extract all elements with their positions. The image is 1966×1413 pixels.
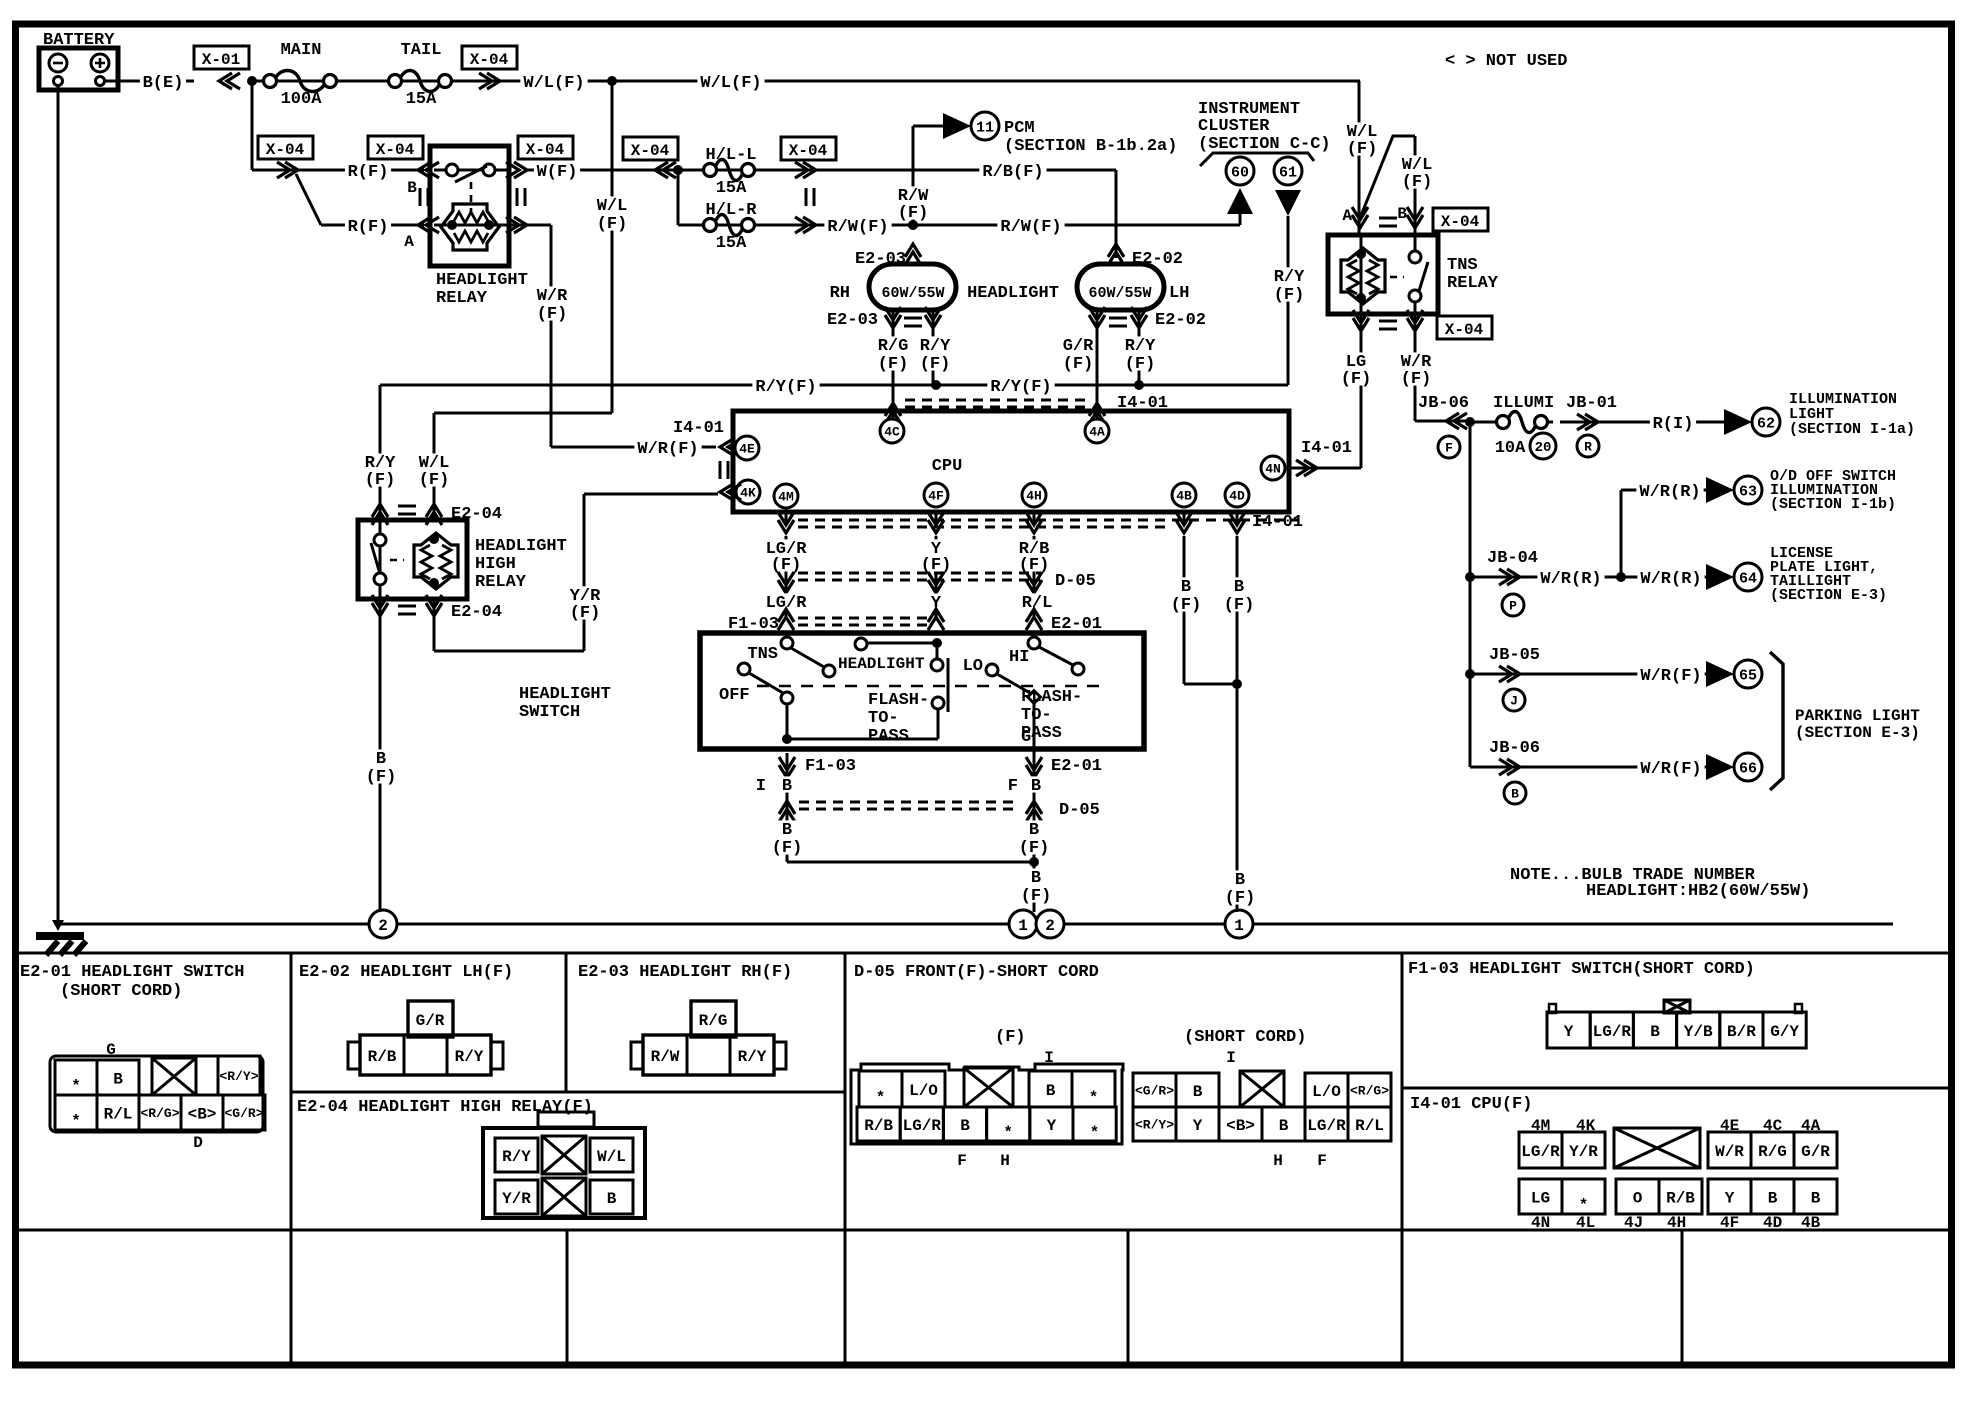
svg-text:B: B — [607, 1190, 617, 1208]
svg-text:W/R(F): W/R(F) — [637, 440, 698, 459]
svg-text:Y: Y — [1725, 1189, 1735, 1207]
svg-text:B: B — [1193, 1083, 1203, 1101]
svg-text:(F): (F) — [1225, 889, 1256, 908]
svg-text:D-05: D-05 — [1055, 572, 1096, 591]
svg-text:LG/R: LG/R — [1593, 1023, 1632, 1041]
svg-text:X-01: X-01 — [202, 51, 240, 69]
svg-text:X-04: X-04 — [789, 142, 828, 160]
svg-text:(F): (F) — [1274, 286, 1305, 305]
svg-text:4L: 4L — [1576, 1214, 1595, 1232]
svg-text:PASS: PASS — [868, 727, 909, 746]
svg-text:H: H — [1000, 1152, 1010, 1170]
svg-text:B: B — [1234, 578, 1244, 597]
svg-text:R/L: R/L — [1022, 594, 1053, 613]
svg-text:(F): (F) — [1171, 596, 1202, 615]
svg-text:B: B — [960, 1117, 970, 1135]
svg-text:<R/G>: <R/G> — [1350, 1084, 1389, 1099]
svg-text:B: B — [1768, 1189, 1778, 1207]
svg-text:W(F): W(F) — [537, 163, 578, 182]
svg-text:(SECTION C-C): (SECTION C-C) — [1198, 135, 1331, 154]
svg-text:E2-01 HEADLIGHT SWITCH: E2-01 HEADLIGHT SWITCH — [20, 963, 244, 982]
svg-text:I4-01: I4-01 — [1301, 439, 1352, 458]
svg-text:64: 64 — [1739, 570, 1757, 587]
svg-text:(SECTION I-1a): (SECTION I-1a) — [1789, 421, 1915, 438]
svg-text:(F): (F) — [1224, 596, 1255, 615]
svg-text:F1-03: F1-03 — [805, 757, 856, 776]
svg-text:A: A — [404, 233, 414, 251]
svg-text:HEADLIGHT: HEADLIGHT — [838, 655, 925, 673]
svg-text:<G/R>: <G/R> — [224, 1106, 263, 1121]
svg-text:B: B — [1046, 1082, 1056, 1100]
svg-text:B: B — [113, 1070, 123, 1088]
svg-text:E2-01: E2-01 — [1051, 757, 1102, 776]
svg-text:(F): (F) — [1125, 355, 1156, 374]
svg-text:<B>: <B> — [1226, 1117, 1255, 1135]
svg-text:65: 65 — [1739, 667, 1757, 684]
svg-text:Y/R: Y/R — [502, 1190, 531, 1208]
svg-text:I: I — [1044, 1049, 1054, 1067]
svg-text:HEADLIGHT:HB2(60W/55W): HEADLIGHT:HB2(60W/55W) — [1586, 882, 1810, 901]
svg-text:X-04: X-04 — [266, 141, 305, 159]
svg-text:(F): (F) — [878, 355, 909, 374]
svg-text:100A: 100A — [281, 90, 323, 109]
svg-text:JB-01: JB-01 — [1566, 394, 1617, 413]
svg-text:TO-: TO- — [1021, 706, 1052, 725]
svg-text:(SECTION E-3): (SECTION E-3) — [1795, 724, 1920, 742]
svg-text:L/O: L/O — [1312, 1083, 1341, 1101]
svg-text:D-05: D-05 — [1059, 801, 1100, 820]
svg-text:R/W: R/W — [651, 1048, 680, 1066]
svg-text:60W/55W: 60W/55W — [1088, 285, 1151, 302]
svg-text:H: H — [1273, 1152, 1283, 1170]
svg-text:W/R(R): W/R(R) — [1540, 570, 1601, 589]
svg-text:R/B(F): R/B(F) — [982, 163, 1043, 182]
svg-text:(F): (F) — [1341, 370, 1372, 389]
svg-text:20: 20 — [1535, 440, 1552, 456]
svg-text:B: B — [782, 821, 792, 840]
svg-text:(F): (F) — [419, 471, 450, 490]
svg-text:G/Y: G/Y — [1770, 1023, 1799, 1041]
svg-text:B: B — [1235, 871, 1245, 890]
svg-text:RH: RH — [830, 284, 850, 303]
svg-text:<R/Y>: <R/Y> — [219, 1069, 258, 1084]
svg-text:*: * — [71, 1078, 81, 1096]
svg-text:D: D — [193, 1134, 203, 1152]
svg-text:PCM: PCM — [1004, 119, 1035, 138]
svg-text:*: * — [71, 1113, 81, 1131]
svg-text:LG/R: LG/R — [1307, 1117, 1346, 1135]
svg-text:< > NOT USED: < > NOT USED — [1445, 52, 1567, 71]
svg-text:4H: 4H — [1667, 1214, 1686, 1232]
svg-text:60W/55W: 60W/55W — [881, 285, 944, 302]
svg-text:TNS: TNS — [1447, 256, 1478, 275]
svg-text:W/R(F): W/R(F) — [1640, 760, 1701, 779]
svg-text:RELAY: RELAY — [475, 573, 527, 592]
svg-text:(F): (F) — [570, 604, 601, 623]
svg-text:W/R: W/R — [1715, 1143, 1744, 1161]
svg-text:G/R: G/R — [1063, 337, 1094, 356]
svg-text:10A: 10A — [1495, 439, 1526, 458]
svg-text:HEADLIGHT: HEADLIGHT — [967, 284, 1059, 303]
svg-text:E2-04 HEADLIGHT HIGH RELAY(F): E2-04 HEADLIGHT HIGH RELAY(F) — [297, 1098, 593, 1117]
svg-text:L/O: L/O — [909, 1082, 938, 1100]
svg-text:G: G — [106, 1041, 116, 1059]
svg-text:2: 2 — [378, 917, 388, 935]
svg-text:W/R(F): W/R(F) — [1640, 667, 1701, 686]
svg-text:4F: 4F — [1720, 1214, 1739, 1232]
svg-text:F: F — [1445, 441, 1453, 456]
svg-text:CLUSTER: CLUSTER — [1198, 117, 1270, 136]
svg-text:B: B — [1029, 821, 1039, 840]
svg-text:X-04: X-04 — [1441, 213, 1480, 231]
svg-text:JB-06: JB-06 — [1418, 394, 1469, 413]
svg-text:W/L: W/L — [597, 197, 628, 216]
svg-text:B: B — [376, 750, 386, 769]
svg-text:61: 61 — [1279, 164, 1297, 181]
svg-text:X-04: X-04 — [526, 141, 565, 159]
svg-text:OFF: OFF — [719, 686, 750, 705]
svg-text:W/R(R): W/R(R) — [1640, 570, 1701, 589]
svg-text:(F): (F) — [1402, 173, 1433, 192]
svg-text:R/Y: R/Y — [1125, 337, 1156, 356]
svg-text:R/W(F): R/W(F) — [1000, 218, 1061, 237]
svg-text:R/Y: R/Y — [738, 1048, 767, 1066]
svg-text:E2-02 HEADLIGHT LH(F): E2-02 HEADLIGHT LH(F) — [299, 963, 513, 982]
svg-text:G/R: G/R — [416, 1012, 445, 1030]
svg-text:R(F): R(F) — [348, 163, 389, 182]
svg-text:(SHORT CORD): (SHORT CORD) — [1184, 1028, 1306, 1047]
svg-text:4C: 4C — [884, 425, 900, 440]
svg-text:<R/Y>: <R/Y> — [1135, 1118, 1174, 1133]
svg-text:E2-03: E2-03 — [827, 311, 878, 330]
svg-text:MAIN: MAIN — [281, 41, 322, 60]
svg-text:JB-06: JB-06 — [1489, 739, 1540, 758]
svg-text:B: B — [1511, 787, 1519, 802]
svg-text:B: B — [1031, 777, 1041, 796]
svg-text:P: P — [1509, 599, 1517, 614]
svg-text:B(E): B(E) — [143, 74, 184, 93]
svg-text:R/Y: R/Y — [502, 1148, 531, 1166]
svg-text:B: B — [1650, 1023, 1660, 1041]
svg-text:LH: LH — [1169, 284, 1189, 303]
svg-text:X-04: X-04 — [1445, 321, 1484, 339]
svg-text:B: B — [1279, 1117, 1289, 1135]
svg-text:15A: 15A — [406, 90, 437, 109]
svg-text:G/R: G/R — [1801, 1143, 1830, 1161]
svg-text:4H: 4H — [1026, 489, 1042, 504]
svg-text:I: I — [756, 777, 766, 796]
svg-text:HEADLIGHT: HEADLIGHT — [436, 271, 528, 290]
svg-text:F: F — [1008, 777, 1018, 796]
svg-text:ILLUMI: ILLUMI — [1493, 394, 1554, 413]
svg-text:*: * — [1089, 1089, 1099, 1107]
svg-text:4J: 4J — [1624, 1214, 1643, 1232]
svg-text:CPU: CPU — [932, 457, 963, 476]
svg-text:(F): (F) — [772, 839, 803, 858]
svg-text:R: R — [1584, 440, 1592, 455]
svg-text:HEADLIGHT: HEADLIGHT — [475, 537, 567, 556]
svg-text:X-04: X-04 — [631, 142, 670, 160]
svg-text:(SECTION I-1b): (SECTION I-1b) — [1770, 496, 1896, 513]
svg-text:15A: 15A — [716, 179, 747, 198]
svg-text:Y: Y — [1047, 1117, 1057, 1135]
svg-text:<G/R>: <G/R> — [1135, 1084, 1174, 1099]
svg-text:Y/R: Y/R — [1569, 1143, 1598, 1161]
svg-text:R/Y: R/Y — [455, 1048, 484, 1066]
svg-text:Y/B: Y/B — [1684, 1023, 1713, 1041]
svg-text:4D: 4D — [1763, 1214, 1782, 1232]
svg-text:R/Y: R/Y — [920, 337, 951, 356]
svg-text:E2-04: E2-04 — [451, 603, 502, 622]
svg-text:R/G: R/G — [699, 1012, 728, 1030]
svg-text:(F): (F) — [771, 556, 802, 575]
svg-text:R/Y(F): R/Y(F) — [990, 378, 1051, 397]
svg-text:W/L(F): W/L(F) — [523, 74, 584, 93]
svg-text:R(F): R(F) — [348, 218, 389, 237]
svg-text:I4-01: I4-01 — [1252, 513, 1303, 532]
svg-text:B/R: B/R — [1727, 1023, 1756, 1041]
svg-text:HIGH: HIGH — [475, 555, 516, 574]
svg-text:R(I): R(I) — [1653, 415, 1694, 434]
svg-text:4D: 4D — [1229, 489, 1245, 504]
svg-text:R/Y(F): R/Y(F) — [755, 378, 816, 397]
svg-text:B: B — [407, 179, 417, 197]
svg-text:<B>: <B> — [188, 1105, 217, 1123]
svg-text:4B: 4B — [1801, 1214, 1821, 1232]
svg-text:W/L(F): W/L(F) — [700, 74, 761, 93]
svg-text:(SECTION E-3): (SECTION E-3) — [1770, 587, 1887, 604]
svg-text:G: G — [1021, 728, 1031, 747]
svg-text:*: * — [1579, 1197, 1589, 1215]
svg-text:W/R(R): W/R(R) — [1639, 483, 1700, 502]
svg-text:H/L-R: H/L-R — [705, 201, 757, 220]
svg-text:E2-03 HEADLIGHT RH(F): E2-03 HEADLIGHT RH(F) — [578, 963, 792, 982]
svg-text:FLASH-: FLASH- — [868, 691, 929, 710]
svg-text:(SECTION B-1b.2a): (SECTION B-1b.2a) — [1004, 137, 1177, 156]
svg-text:F1-03 HEADLIGHT SWITCH(SHORT C: F1-03 HEADLIGHT SWITCH(SHORT CORD) — [1408, 960, 1755, 979]
svg-text:2: 2 — [1045, 917, 1055, 935]
svg-text:LG: LG — [1531, 1189, 1550, 1207]
svg-text:W/R: W/R — [537, 287, 568, 306]
svg-text:R/Y: R/Y — [1274, 268, 1305, 287]
svg-text:15A: 15A — [716, 234, 747, 253]
svg-text:R/B: R/B — [864, 1117, 893, 1135]
svg-text:TNS: TNS — [747, 645, 778, 664]
svg-text:HEADLIGHT: HEADLIGHT — [519, 685, 611, 704]
svg-text:D-05 FRONT(F)-SHORT CORD: D-05 FRONT(F)-SHORT CORD — [854, 963, 1099, 982]
svg-text:PARKING LIGHT: PARKING LIGHT — [1795, 707, 1920, 725]
svg-text:X-04: X-04 — [376, 141, 415, 159]
svg-text:R/L: R/L — [1355, 1117, 1384, 1135]
svg-text:*: * — [1003, 1124, 1013, 1142]
svg-text:RELAY: RELAY — [436, 289, 488, 308]
svg-text:(F): (F) — [597, 215, 628, 234]
svg-text:(F): (F) — [1019, 839, 1050, 858]
svg-text:I4-01 CPU(F): I4-01 CPU(F) — [1410, 1095, 1532, 1114]
svg-text:F: F — [957, 1152, 967, 1170]
svg-text:TAIL: TAIL — [401, 41, 442, 60]
svg-text:66: 66 — [1739, 760, 1757, 777]
svg-text:(F): (F) — [365, 471, 396, 490]
svg-text:*: * — [876, 1089, 886, 1107]
svg-text:4F: 4F — [928, 489, 944, 504]
svg-text:62: 62 — [1757, 415, 1775, 432]
svg-text:(F): (F) — [1021, 887, 1052, 906]
svg-text:(F): (F) — [995, 1028, 1026, 1047]
svg-text:Y: Y — [1193, 1117, 1203, 1135]
svg-text:4M: 4M — [778, 490, 794, 505]
svg-text:B: B — [1181, 578, 1191, 597]
svg-text:R/B: R/B — [1666, 1189, 1695, 1207]
svg-text:LG/R: LG/R — [903, 1117, 942, 1135]
svg-text:11: 11 — [976, 119, 994, 136]
svg-text:R/W(F): R/W(F) — [827, 218, 888, 237]
svg-text:R/G: R/G — [1758, 1143, 1787, 1161]
svg-text:J: J — [1510, 694, 1518, 709]
svg-text:1: 1 — [1234, 917, 1244, 935]
svg-text:(F): (F) — [366, 768, 397, 787]
svg-text:60: 60 — [1231, 164, 1249, 181]
svg-text:O: O — [1633, 1189, 1643, 1207]
svg-text:B: B — [1811, 1189, 1821, 1207]
svg-text:HI: HI — [1009, 648, 1029, 667]
svg-text:JB-04: JB-04 — [1487, 549, 1538, 568]
svg-text:<R/G>: <R/G> — [140, 1106, 179, 1121]
svg-text:SWITCH: SWITCH — [519, 703, 580, 722]
svg-text:4E: 4E — [739, 442, 755, 457]
svg-text:R/B: R/B — [368, 1048, 397, 1066]
svg-text:(F): (F) — [920, 355, 951, 374]
svg-text:1: 1 — [1018, 917, 1028, 935]
svg-text:4N: 4N — [1531, 1214, 1550, 1232]
svg-text:(F): (F) — [1347, 140, 1378, 159]
svg-text:(F): (F) — [1401, 370, 1432, 389]
svg-text:Y: Y — [1564, 1023, 1574, 1041]
svg-text:4A: 4A — [1089, 425, 1105, 440]
svg-text:JB-05: JB-05 — [1489, 646, 1540, 665]
svg-text:63: 63 — [1739, 483, 1757, 500]
svg-text:(F): (F) — [1063, 355, 1094, 374]
svg-text:TO-: TO- — [868, 709, 899, 728]
svg-text:FLASH-: FLASH- — [1021, 688, 1082, 707]
svg-text:R/G: R/G — [878, 337, 909, 356]
svg-text:*: * — [1090, 1124, 1100, 1142]
svg-text:LO: LO — [963, 657, 983, 676]
svg-text:(F): (F) — [537, 305, 568, 324]
svg-text:RELAY: RELAY — [1447, 274, 1499, 293]
svg-text:I4-01: I4-01 — [673, 419, 724, 438]
svg-text:LG/R: LG/R — [1521, 1143, 1560, 1161]
svg-text:E2-02: E2-02 — [1155, 311, 1206, 330]
svg-text:X-04: X-04 — [470, 51, 509, 69]
svg-text:W/L: W/L — [597, 1148, 626, 1166]
svg-text:4B: 4B — [1176, 489, 1192, 504]
svg-text:F: F — [1317, 1152, 1327, 1170]
svg-text:4K: 4K — [740, 486, 756, 501]
svg-text:(SHORT CORD): (SHORT CORD) — [60, 982, 182, 1001]
svg-text:H/L-L: H/L-L — [705, 146, 756, 165]
svg-text:4N: 4N — [1265, 462, 1281, 477]
svg-text:R/L: R/L — [104, 1105, 133, 1123]
svg-text:B: B — [782, 777, 792, 796]
svg-text:I: I — [1226, 1049, 1236, 1067]
svg-text:B: B — [1031, 869, 1041, 888]
